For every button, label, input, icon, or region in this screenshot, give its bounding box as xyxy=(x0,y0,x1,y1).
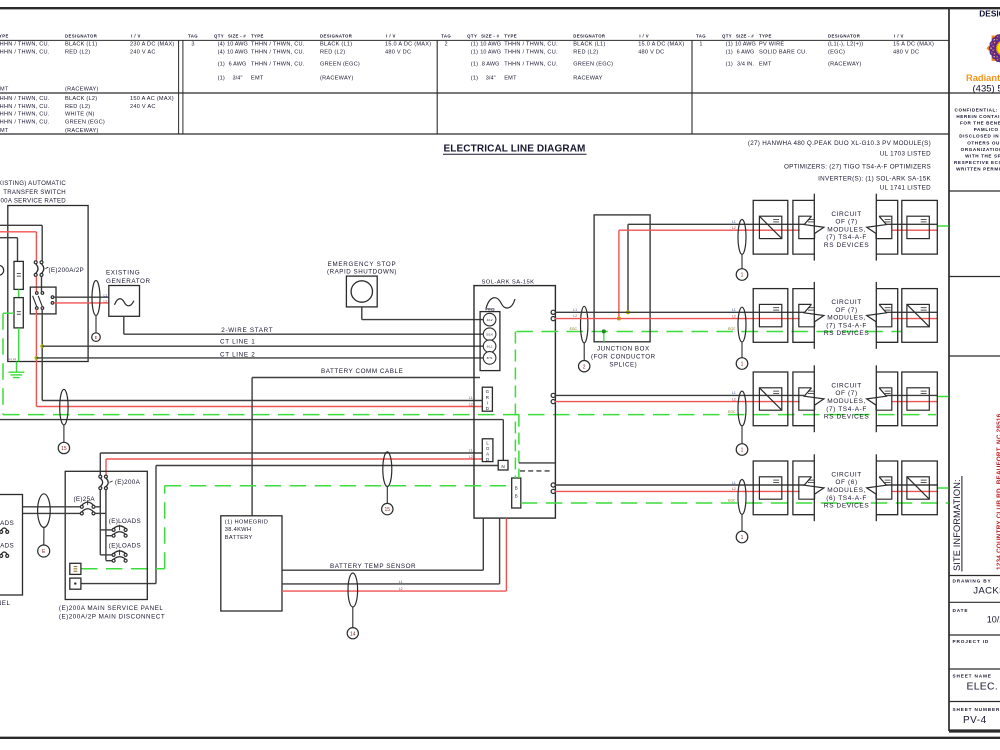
svg-text:BATTERY TEMP SENSOR: BATTERY TEMP SENSOR xyxy=(330,563,416,570)
svg-text:(1): (1) xyxy=(726,42,733,48)
svg-text:(1): (1) xyxy=(471,50,478,56)
battery temp sensor wire xyxy=(282,569,483,571)
svg-text:EGC: EGC xyxy=(728,327,736,331)
PV row2 module box A xyxy=(753,289,788,343)
svg-text:CIRCUIT: CIRCUIT xyxy=(831,471,862,478)
svg-text:WHITE (N): WHITE (N) xyxy=(65,112,95,118)
svg-text:(7) TS4-A-F: (7) TS4-A-F xyxy=(826,322,867,329)
svg-text:(E)200A/2P: (E)200A/2P xyxy=(49,267,85,274)
svg-text:E: E xyxy=(95,335,98,340)
utility feeder N (black) xyxy=(0,237,18,239)
svg-text:PROJECT ID: PROJECT ID xyxy=(953,639,990,644)
svg-text:MODULES,: MODULES, xyxy=(827,226,866,233)
neutral lug square 2 xyxy=(70,578,81,589)
svg-text:(E) PANEL: (E) PANEL xyxy=(0,600,11,607)
PV row1 continuation break right xyxy=(876,200,897,254)
svg-text:L2: L2 xyxy=(469,402,473,406)
green bond to EGC xyxy=(3,312,14,314)
svg-text:(E)200A MAIN SERVICE PANEL: (E)200A MAIN SERVICE PANEL xyxy=(59,605,163,612)
svg-text:MODULES,: MODULES, xyxy=(827,487,866,494)
svg-text:RS DEVICES: RS DEVICES xyxy=(824,242,869,249)
svg-text:(EXISTING) AUTOMATIC: (EXISTING) AUTOMATIC xyxy=(0,180,66,187)
svg-text:CIRCUIT: CIRCUIT xyxy=(831,211,862,218)
generator box xyxy=(109,286,140,317)
svg-text:BLACK (L2): BLACK (L2) xyxy=(65,96,97,102)
grid bundle L1 (black) xyxy=(42,400,482,402)
svg-text:PINS: PINS xyxy=(485,306,495,311)
generator tag circle E xyxy=(92,333,101,342)
svg-text:(RACEWAY): (RACEWAY) xyxy=(65,128,99,134)
svg-text:38.4KWH: 38.4KWH xyxy=(225,527,251,533)
svg-text:I / V: I / V xyxy=(386,34,396,39)
svg-text:OF (6): OF (6) xyxy=(835,479,857,486)
PV row2 wire L1 (black) xyxy=(555,311,804,313)
svg-text:OPTIMIZERS: (27) TIGO TS4-A-F: OPTIMIZERS: (27) TIGO TS4-A-F OPTIMIZERS xyxy=(784,163,931,170)
svg-text:L2: L2 xyxy=(13,357,17,361)
svg-text:DESIGNATOR: DESIGNATOR xyxy=(65,34,98,39)
svg-text:EMT: EMT xyxy=(0,128,9,134)
svg-text:(7) TS4-A-F: (7) TS4-A-F xyxy=(826,406,867,413)
svg-text:THHN / THWN, CU.: THHN / THWN, CU. xyxy=(0,42,50,48)
PV row2 wire L2 (red) xyxy=(555,318,800,320)
wires 25A to bus xyxy=(95,506,100,508)
svg-text:3/4": 3/4" xyxy=(486,76,496,82)
svg-text:RS DEVICES: RS DEVICES xyxy=(824,503,869,510)
svg-text:(4): (4) xyxy=(218,42,225,48)
title block frame xyxy=(948,8,950,731)
svg-text:OF (7): OF (7) xyxy=(835,307,857,314)
svg-text:5/1N: 5/1N xyxy=(486,332,492,336)
svg-text:L2: L2 xyxy=(104,299,108,303)
svg-text:WRITTEN PERMISSION OF OWNER: WRITTEN PERMISSION OF OWNER xyxy=(956,166,1000,171)
svg-text:INVERTER(S): (1) SOL-ARK SA-15: INVERTER(S): (1) SOL-ARK SA-15K xyxy=(818,176,931,183)
svg-text:MODULES,: MODULES, xyxy=(827,315,866,322)
svg-text:TYPE: TYPE xyxy=(759,34,772,39)
svg-text:TAG: TAG xyxy=(696,34,706,39)
svg-text:N: N xyxy=(501,464,504,469)
svg-text:EGC: EGC xyxy=(728,499,736,503)
svg-text:BLACK (L1): BLACK (L1) xyxy=(65,42,97,48)
loads breaker 2 xyxy=(100,554,112,556)
svg-text:L1: L1 xyxy=(104,293,108,297)
svg-text:OF (7): OF (7) xyxy=(835,219,857,226)
breaker (E)25A xyxy=(80,505,83,508)
LOAD terminal box xyxy=(482,439,493,462)
svg-text:(4): (4) xyxy=(218,50,225,56)
svg-text:10 AWG: 10 AWG xyxy=(227,42,248,48)
utility feeder L2 (red) xyxy=(0,231,36,233)
svg-text:GENERATOR: GENERATOR xyxy=(106,278,151,285)
svg-text:THHN / THWN, CU.: THHN / THWN, CU. xyxy=(504,50,558,56)
PV row4 tag circle 1 xyxy=(736,531,748,543)
2-wire start wire xyxy=(123,316,125,334)
svg-text:L2: L2 xyxy=(573,314,577,318)
wire breaker to switch L2 (red) xyxy=(35,276,37,291)
page top border xyxy=(0,7,1000,9)
inverter box xyxy=(474,286,555,518)
svg-text:THHN / THWN, CU.: THHN / THWN, CU. xyxy=(251,62,305,68)
svg-text:150 A AC (MAX): 150 A AC (MAX) xyxy=(130,96,174,102)
tag circle 14 xyxy=(347,628,358,639)
MSP bus L1 xyxy=(99,490,101,555)
panel feeder wires xyxy=(23,506,81,508)
svg-text:3: 3 xyxy=(191,42,194,48)
PV row1 continuation break left xyxy=(793,200,814,254)
CT line 2 wire xyxy=(36,357,483,359)
emergency stop button xyxy=(351,281,372,302)
svg-text:I / V: I / V xyxy=(639,34,649,39)
svg-text:EMERGENCY STOP: EMERGENCY STOP xyxy=(328,261,397,268)
svg-text:SIZE - #: SIZE - # xyxy=(736,34,754,39)
PV row3 tag circle 1 xyxy=(736,444,748,456)
svg-text:THHN / THWN, CU.: THHN / THWN, CU. xyxy=(0,96,50,102)
MSP box xyxy=(65,471,147,599)
fuse F1 xyxy=(14,261,23,289)
N terminal box xyxy=(498,460,508,470)
battery conduit oval 14 xyxy=(348,573,358,607)
svg-text:GREEN (EGC): GREEN (EGC) xyxy=(65,119,105,125)
CT tap junction dot 2 xyxy=(35,356,39,360)
svg-text:1: 1 xyxy=(741,273,744,279)
left panel tag circle E xyxy=(38,545,50,557)
svg-text:EGC: EGC xyxy=(570,327,578,331)
svg-text:EGC: EGC xyxy=(728,410,736,414)
emergency stop wire xyxy=(361,307,363,320)
generator sine xyxy=(115,299,134,306)
svg-text:L1: L1 xyxy=(9,357,13,361)
PV row2 continuation break right xyxy=(876,289,897,343)
svg-text:(L1(-), L2(+)): (L1(-), L2(+)) xyxy=(828,42,863,48)
svg-text:1234 COUNTRY CLUB RD. BEAUFORT: 1234 COUNTRY CLUB RD. BEAUFORT, NC 28516 xyxy=(996,413,1000,570)
svg-text:RED (L2): RED (L2) xyxy=(320,50,345,56)
battery box xyxy=(221,516,282,611)
svg-text:L1: L1 xyxy=(469,396,473,400)
svg-text:I / V: I / V xyxy=(131,34,141,39)
svg-text:UL 1703 LISTED: UL 1703 LISTED xyxy=(880,150,931,157)
svg-text:6 AWG: 6 AWG xyxy=(229,62,247,68)
svg-text:(E)200A: (E)200A xyxy=(115,479,141,486)
left panel CT line xyxy=(43,527,45,545)
svg-text:8/T1: 8/T1 xyxy=(487,356,493,360)
svg-text:(E)LOADS: (E)LOADS xyxy=(109,518,141,525)
svg-text:Radiant So: Radiant So xyxy=(966,73,1000,83)
ground lug square 1 xyxy=(70,563,81,574)
svg-text:QTY: QTY xyxy=(214,34,224,39)
svg-text:(RAPID SHUTDOWN): (RAPID SHUTDOWN) xyxy=(327,269,397,276)
inverter PV terminals xyxy=(551,310,555,314)
PV row4 EGC stub xyxy=(937,487,948,489)
svg-text:SITE INFORMATION:: SITE INFORMATION: xyxy=(952,479,962,571)
svg-text:(EGC): (EGC) xyxy=(828,50,845,56)
generator CT oval xyxy=(92,281,100,316)
svg-text:10 AWG: 10 AWG xyxy=(480,42,501,48)
svg-text:ORGANIZATION, EXCEPT ONLY: ORGANIZATION, EXCEPT ONLY xyxy=(961,147,1000,152)
svg-text:(RACEWAY): (RACEWAY) xyxy=(320,76,354,82)
svg-text:DISCLOSED IN CONFIDENCE TO: DISCLOSED IN CONFIDENCE TO xyxy=(959,134,1000,139)
svg-text:THHN / THWN, CU.: THHN / THWN, CU. xyxy=(251,50,305,56)
svg-text:(27) HANWHA 480 Q.PEAK DUO XL-: (27) HANWHA 480 Q.PEAK DUO XL-G10.3 PV M… xyxy=(748,140,931,147)
tag circle 15b xyxy=(382,503,393,514)
utility meter (clipped at edge) xyxy=(0,265,4,275)
conduit oval tag 15a xyxy=(60,389,68,425)
jbox riser L1 (black) xyxy=(627,224,629,312)
svg-text:15.0 A DC (MAX): 15.0 A DC (MAX) xyxy=(638,42,684,48)
svg-text:BLACK (L1): BLACK (L1) xyxy=(320,42,352,48)
svg-text:D: D xyxy=(486,406,489,411)
svg-text:2: 2 xyxy=(445,42,448,48)
svg-text:RED (L2): RED (L2) xyxy=(65,50,90,56)
battery comm cable xyxy=(252,377,480,379)
PV row2 module box B xyxy=(902,289,938,343)
PV row1 module box B xyxy=(902,200,938,254)
PV row4 module box A xyxy=(753,461,788,515)
battery terminal box xyxy=(512,478,521,508)
svg-text:480 V DC: 480 V DC xyxy=(893,50,919,56)
svg-text:(1): (1) xyxy=(218,62,225,68)
svg-text:3/4 IN.: 3/4 IN. xyxy=(737,62,754,68)
svg-text:15.0 A DC (MAX): 15.0 A DC (MAX) xyxy=(385,42,431,48)
svg-text:DRAWING BY: DRAWING BY xyxy=(953,579,992,584)
svg-text:B: B xyxy=(515,485,518,490)
PV row4 wire L1 (black) xyxy=(555,484,804,486)
battery cable stub solid xyxy=(519,462,556,464)
svg-text:L1: L1 xyxy=(399,580,403,584)
load bundle L1 (black) xyxy=(100,452,482,454)
svg-text:480 V DC: 480 V DC xyxy=(385,50,411,56)
svg-text:10 AWG: 10 AWG xyxy=(227,50,248,56)
svg-text:I: I xyxy=(487,400,488,405)
ATS enclosure box xyxy=(8,206,88,362)
svg-text:THHN / THWN, CU.: THHN / THWN, CU. xyxy=(0,112,50,118)
svg-text:15 A DC (MAX): 15 A DC (MAX) xyxy=(893,42,934,48)
svg-text:EMT: EMT xyxy=(759,62,772,68)
load bundle L2 (red) xyxy=(106,458,482,460)
svg-text:R: R xyxy=(486,395,489,400)
svg-text:TAG: TAG xyxy=(441,34,451,39)
svg-text:2-WIRE START: 2-WIRE START xyxy=(221,327,273,334)
CT tap junction dot 1 xyxy=(40,344,44,348)
svg-text:UL 1741 LISTED: UL 1741 LISTED xyxy=(880,184,931,191)
svg-text:SOL-ARK SA-15K: SOL-ARK SA-15K xyxy=(482,279,535,285)
PV row1 tag circle 1 xyxy=(736,269,748,281)
svg-text:480 V DC: 480 V DC xyxy=(638,50,664,56)
PV row2 conduit oval xyxy=(738,307,746,342)
svg-text:PAMLICO SOLAR LLC: PAMLICO SOLAR LLC xyxy=(974,127,1000,132)
svg-text:EMT: EMT xyxy=(504,76,517,82)
svg-text:L1: L1 xyxy=(732,481,736,485)
svg-text:2: 2 xyxy=(583,364,586,370)
PV row1 wire L1 (black) xyxy=(628,223,804,225)
breaker (E)200A xyxy=(99,475,102,478)
svg-text:FOR THE BENEFIT AND USE OF: FOR THE BENEFIT AND USE OF xyxy=(960,121,1000,126)
svg-text:I / V: I / V xyxy=(894,34,904,39)
pins terminal circles xyxy=(480,312,500,371)
svg-text:SOLID BARE CU.: SOLID BARE CU. xyxy=(759,50,807,56)
svg-text:BATTERY COMM CABLE: BATTERY COMM CABLE xyxy=(321,368,403,375)
svg-text:THHN / THWN, CU.: THHN / THWN, CU. xyxy=(504,42,558,48)
svg-text:ELEC. L: ELEC. L xyxy=(967,681,1000,692)
svg-text:RACEWAY: RACEWAY xyxy=(573,76,602,82)
wire switch to generator L2 (red) xyxy=(54,302,109,304)
svg-text:L2: L2 xyxy=(732,314,736,318)
svg-text:L1: L1 xyxy=(573,308,577,312)
svg-text:TYPE: TYPE xyxy=(504,34,517,39)
svg-text:230 A DC (MAX): 230 A DC (MAX) xyxy=(130,42,175,48)
svg-text:L2: L2 xyxy=(732,226,736,230)
grid bundle L2 (red) xyxy=(36,406,482,408)
svg-text:THHN / THWN, CU.: THHN / THWN, CU. xyxy=(504,62,558,68)
tag circle 2 xyxy=(579,361,590,372)
svg-text:(435) 55: (435) 55 xyxy=(973,84,1000,95)
battery cable L2 (red) xyxy=(282,590,506,592)
svg-text:8 AWG: 8 AWG xyxy=(482,62,500,68)
svg-text:WITH THE SPECIFIC TERMS: WITH THE SPECIFIC TERMS xyxy=(965,153,1000,158)
svg-text:DESIGNED: DESIGNED xyxy=(979,9,1000,19)
PV row3 module box A xyxy=(753,372,788,426)
svg-text:1: 1 xyxy=(741,448,744,454)
svg-text:TAG: TAG xyxy=(188,34,198,39)
PV row4 continuation break right xyxy=(876,461,897,515)
svg-text:TRANSFER SWITCH: TRANSFER SWITCH xyxy=(3,189,66,196)
PV row2 tag circle 1 xyxy=(736,358,748,370)
EGC row2 dashed xyxy=(516,331,901,333)
svg-text:L2: L2 xyxy=(469,455,473,459)
svg-text:ELECTRICAL LINE DIAGRAM: ELECTRICAL LINE DIAGRAM xyxy=(443,143,585,154)
svg-text:15: 15 xyxy=(61,446,67,452)
fuse link green xyxy=(18,289,20,297)
svg-text:OF (7): OF (7) xyxy=(835,390,857,397)
PV row3 wire L1 (black) xyxy=(555,394,804,396)
emergency stop box xyxy=(346,276,377,307)
PV row1 wire L2 (red) xyxy=(619,229,800,231)
jbox ground dot xyxy=(602,329,606,333)
svg-text:HEREIN CONTAINED IS PROVIDED: HEREIN CONTAINED IS PROVIDED xyxy=(956,114,1000,119)
PV row3 continuation break right xyxy=(876,372,897,426)
CT line 1 wire xyxy=(42,345,483,347)
ATS output L1 down (black) xyxy=(41,309,43,400)
svg-text:CONFIDENTIAL: THE INFORMATION: CONFIDENTIAL: THE INFORMATION xyxy=(955,108,1000,113)
svg-text:QTY: QTY xyxy=(467,34,477,39)
PV row4 continuation break left xyxy=(793,461,814,515)
svg-text:10 AWG: 10 AWG xyxy=(480,50,501,56)
svg-text:EMT: EMT xyxy=(0,87,9,93)
EGC from MSP dashed xyxy=(81,568,165,570)
svg-text:O: O xyxy=(486,446,490,451)
svg-text:(1): (1) xyxy=(471,42,478,48)
PV row4 module box B xyxy=(902,461,938,515)
svg-text:RS DEVICES: RS DEVICES xyxy=(824,414,869,421)
svg-text:4/L2: 4/L2 xyxy=(487,318,493,322)
svg-text:RED (L2): RED (L2) xyxy=(65,104,90,110)
svg-text:DATE: DATE xyxy=(953,608,969,613)
svg-text:PV WIRE: PV WIRE xyxy=(759,42,784,48)
svg-text:14: 14 xyxy=(350,631,356,637)
svg-text:(1): (1) xyxy=(471,62,478,68)
svg-text:(1): (1) xyxy=(218,76,225,82)
svg-text:(E)LOADS: (E)LOADS xyxy=(109,543,141,550)
svg-text:(FOR CONDUCTOR: (FOR CONDUCTOR xyxy=(591,354,656,361)
generator CT line xyxy=(95,316,97,333)
svg-text:PV-4: PV-4 xyxy=(963,715,987,726)
svg-text:DESIGNATOR: DESIGNATOR xyxy=(320,34,353,39)
svg-text:SHEET NUMBER: SHEET NUMBER xyxy=(953,707,1000,712)
svg-text:EMT: EMT xyxy=(251,76,264,82)
svg-text:SHEET NAME: SHEET NAME xyxy=(953,674,992,679)
left panel breaker 1 xyxy=(0,530,3,533)
neutral wire (to N box) xyxy=(0,419,503,421)
svg-text:6/L1: 6/L1 xyxy=(487,344,493,348)
green down from F2 xyxy=(18,328,20,362)
svg-text:GREEN (EGC): GREEN (EGC) xyxy=(320,62,360,68)
svg-text:6 AWG: 6 AWG xyxy=(737,50,755,56)
svg-text:TYPE: TYPE xyxy=(251,34,264,39)
PV row3 conduit oval xyxy=(738,391,746,426)
PV row1 EGC stub xyxy=(937,225,948,227)
left panel CT oval xyxy=(38,494,51,528)
svg-text:1: 1 xyxy=(741,535,744,541)
svg-text:10 AWG: 10 AWG xyxy=(735,42,756,48)
svg-text:L2: L2 xyxy=(732,487,736,491)
left panel box xyxy=(0,495,23,596)
jbox junction dot L1 xyxy=(626,310,630,314)
svg-text:(RACEWAY): (RACEWAY) xyxy=(828,62,862,68)
svg-text:(E)25A: (E)25A xyxy=(74,496,96,503)
svg-text:EXISTING: EXISTING xyxy=(106,270,140,277)
EGC row4 dashed xyxy=(521,502,949,504)
svg-text:CT LINE 2: CT LINE 2 xyxy=(220,352,255,359)
svg-text:(1): (1) xyxy=(726,50,733,56)
EGC dashed (ATS to PV row3) xyxy=(2,313,4,414)
jbox junction dot L2 xyxy=(617,317,621,321)
svg-text:(E)LOADS: (E)LOADS xyxy=(0,542,14,549)
PV row1 module box A xyxy=(753,200,788,254)
svg-text:L1: L1 xyxy=(732,220,736,224)
svg-text:D: D xyxy=(486,457,489,462)
utility feeder L1 (black) xyxy=(0,224,42,226)
junction box xyxy=(594,215,650,342)
svg-text:1: 1 xyxy=(699,42,702,48)
PV row4 conduit oval xyxy=(738,480,746,515)
inverter sine xyxy=(486,298,515,309)
svg-text:B: B xyxy=(515,493,518,498)
jbox riser L2 (red) xyxy=(618,230,620,318)
svg-text:THHN / THWN, CU.: THHN / THWN, CU. xyxy=(0,104,50,110)
svg-text:10/26/21: 10/26/21 xyxy=(987,614,1000,624)
svg-text:L1: L1 xyxy=(732,308,736,312)
wire switch to generator L1 xyxy=(54,296,109,298)
conduit oval tag 2 xyxy=(581,306,588,343)
PV row2 continuation break left xyxy=(793,289,814,343)
ground symbol xyxy=(9,371,25,373)
svg-text:RESPECTIVE ECONOMIC TERMS OR: RESPECTIVE ECONOMIC TERMS OR xyxy=(954,160,1000,165)
PV row4 wire L2 (red) xyxy=(555,490,800,492)
svg-text:QTY: QTY xyxy=(722,34,732,39)
svg-text:A: A xyxy=(486,451,489,456)
left panel breaker 2 xyxy=(0,554,3,557)
svg-text:DESIGNATOR: DESIGNATOR xyxy=(573,34,606,39)
svg-text:240 V AC: 240 V AC xyxy=(130,50,156,56)
svg-text:JACKSON: JACKSON xyxy=(973,585,1000,596)
battery cable stub dashed xyxy=(520,470,550,472)
wire breaker to switch L1 (black) xyxy=(41,276,43,291)
svg-text:L2: L2 xyxy=(399,587,403,591)
svg-text:(1) HOMEGRID: (1) HOMEGRID xyxy=(225,519,268,525)
svg-text:CIRCUIT: CIRCUIT xyxy=(831,299,862,306)
svg-text:SPLICE): SPLICE) xyxy=(609,362,637,369)
company logo xyxy=(988,32,1000,65)
svg-text:(1): (1) xyxy=(726,62,733,68)
svg-text:(RACEWAY): (RACEWAY) xyxy=(65,87,99,93)
